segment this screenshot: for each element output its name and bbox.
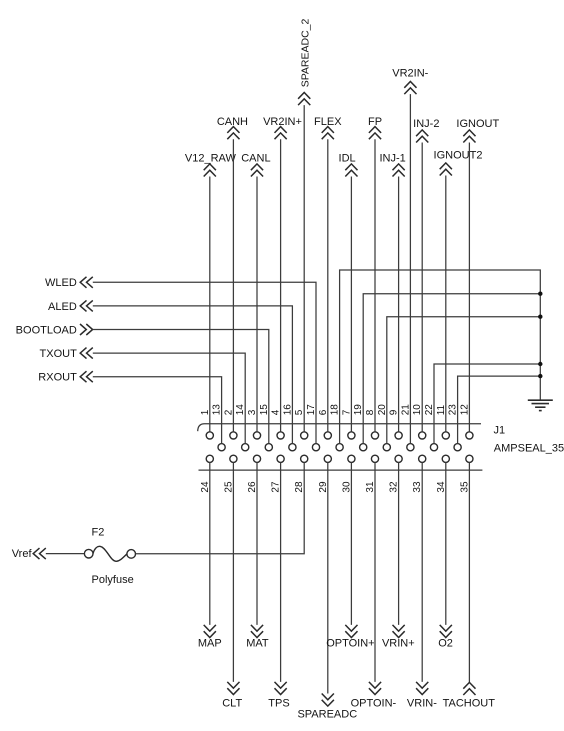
pin 2 number label bbox=[223, 409, 234, 415]
svg-text:31: 31 bbox=[365, 481, 376, 493]
net BOOTLOAD: off-page arrow, label, wire to pin 15 bbox=[16, 324, 269, 444]
pin 19 circle bbox=[360, 444, 367, 451]
pin 4 number label bbox=[271, 409, 282, 415]
net INJ-2: off-page arrow, label and wire to pin 10 bbox=[413, 118, 439, 432]
svg-text:CANH: CANH bbox=[217, 116, 248, 128]
svg-text:MAT: MAT bbox=[246, 638, 269, 650]
svg-text:IGNOUT: IGNOUT bbox=[456, 118, 499, 130]
pin 34 circle bbox=[442, 455, 449, 462]
net OPTOIN-: wire from pin 31, off-page arrow and label bbox=[351, 462, 397, 709]
svg-text:12: 12 bbox=[459, 404, 470, 416]
svg-text:F2: F2 bbox=[92, 526, 105, 538]
svg-text:WLED: WLED bbox=[45, 277, 77, 289]
svg-text:22: 22 bbox=[424, 404, 435, 416]
svg-text:TXOUT: TXOUT bbox=[40, 348, 78, 360]
pin 8 number label bbox=[365, 409, 376, 415]
svg-text:VRIN-: VRIN- bbox=[407, 697, 437, 709]
pin 6 number label bbox=[318, 409, 329, 415]
pin 2 circle bbox=[230, 432, 237, 439]
pin 25 circle bbox=[230, 455, 237, 462]
net MAP: wire from pin 24, off-page arrow and label bbox=[198, 462, 222, 649]
svg-text:19: 19 bbox=[353, 404, 364, 416]
pin 33 number label bbox=[412, 481, 423, 493]
pin 20 circle bbox=[383, 444, 390, 451]
svg-text:29: 29 bbox=[318, 481, 329, 493]
svg-text:26: 26 bbox=[247, 481, 258, 493]
net ALED: off-page arrow, label, wire to pin 16 bbox=[48, 300, 292, 443]
net IDL: off-page arrow, label and wire to pin 7 bbox=[339, 152, 358, 431]
net WLED: off-page arrow, label, wire to pin 17 bbox=[45, 277, 316, 444]
connector J1 body outline bbox=[198, 424, 483, 470]
svg-text:6: 6 bbox=[318, 409, 329, 415]
pin 27 number label bbox=[271, 481, 282, 493]
svg-text:13: 13 bbox=[212, 404, 223, 416]
net CLT: wire from pin 25, off-page arrow and label bbox=[222, 462, 242, 709]
pin 20 number label bbox=[377, 404, 388, 416]
pin 13 number label bbox=[212, 404, 223, 416]
svg-text:VR2IN-: VR2IN- bbox=[392, 67, 428, 79]
svg-text:27: 27 bbox=[271, 481, 282, 493]
svg-text:TACHOUT: TACHOUT bbox=[443, 697, 496, 709]
svg-text:CLT: CLT bbox=[222, 697, 242, 709]
pin 27 circle bbox=[277, 455, 284, 462]
net TXOUT: off-page arrow, label, wire to pin 14 bbox=[40, 348, 246, 444]
pin 17 number label bbox=[306, 404, 317, 416]
connector value label AMPSEAL_35 bbox=[494, 442, 564, 454]
pin 7 number label bbox=[341, 409, 352, 415]
wire pin 22 to ground bus bbox=[434, 364, 540, 444]
pin 23 number label bbox=[448, 404, 459, 416]
junction dot pin 19 wire on ground bus bbox=[538, 292, 542, 296]
net VRIN+: wire from pin 32, off-page arrow and label bbox=[382, 462, 415, 649]
pin 1 number label bbox=[200, 409, 211, 415]
pin 25 number label bbox=[223, 481, 234, 493]
svg-text:IDL: IDL bbox=[339, 152, 356, 164]
wire pin 20 to ground bus bbox=[387, 317, 541, 444]
net CANL: off-page arrow, label and wire to pin 3 bbox=[241, 152, 270, 431]
pin 26 circle bbox=[253, 455, 260, 462]
pin 24 circle bbox=[206, 455, 213, 462]
wire pin 23 to ground bus bbox=[458, 376, 541, 444]
svg-text:16: 16 bbox=[282, 404, 293, 416]
net SPAREADC: wire from pin 29, off-page arrow and label bbox=[297, 462, 357, 720]
junction dot pin 22 wire on ground bus bbox=[538, 362, 542, 366]
wire pin 18 to ground bus (bus top corner) bbox=[340, 270, 541, 444]
pin 7 circle bbox=[348, 432, 355, 439]
net TPS: wire from pin 27, off-page arrow and label bbox=[268, 462, 289, 709]
svg-text:20: 20 bbox=[377, 404, 388, 416]
svg-text:Vref: Vref bbox=[12, 548, 33, 560]
pin 5 number label bbox=[294, 409, 305, 415]
svg-text:INJ-2: INJ-2 bbox=[413, 118, 439, 130]
wire Vref arrow to fuse F2 bbox=[46, 553, 85, 555]
net INJ-1: off-page arrow, label and wire to pin 9 bbox=[379, 152, 405, 431]
svg-text:9: 9 bbox=[389, 409, 400, 415]
svg-text:J1: J1 bbox=[494, 424, 506, 436]
pin 31 number label bbox=[365, 481, 376, 493]
pin 16 circle bbox=[289, 444, 296, 451]
fuse reference label F2 bbox=[92, 526, 105, 538]
pin 12 circle bbox=[466, 432, 473, 439]
ground symbol bbox=[528, 400, 553, 410]
net CANH: off-page arrow, label and wire to pin 2 bbox=[217, 116, 248, 432]
svg-text:18: 18 bbox=[330, 404, 341, 416]
net VR2IN-: off-page arrow, label and wire to pin 21 bbox=[392, 67, 428, 443]
pin 35 circle bbox=[466, 455, 473, 462]
net RXOUT: off-page arrow, label, wire to pin 13 bbox=[38, 371, 221, 443]
svg-text:4: 4 bbox=[271, 409, 282, 415]
svg-text:11: 11 bbox=[436, 404, 447, 415]
net Vref: off-page arrow and label bbox=[12, 548, 46, 560]
pin 22 circle bbox=[430, 444, 437, 451]
junction dot pin 20 wire on ground bus bbox=[538, 315, 542, 319]
pin 15 number label bbox=[259, 404, 270, 416]
svg-text:BOOTLOAD: BOOTLOAD bbox=[16, 324, 77, 336]
svg-text:35: 35 bbox=[459, 481, 470, 493]
svg-text:CANL: CANL bbox=[241, 152, 270, 164]
pin 32 number label bbox=[389, 481, 400, 493]
net OPTOIN+: wire from pin 30, off-page arrow and label bbox=[326, 462, 374, 649]
svg-text:V12_RAW: V12_RAW bbox=[185, 152, 237, 164]
net V12_RAW: off-page arrow, label and wire to pin 1 bbox=[185, 152, 237, 431]
pin 14 circle bbox=[242, 444, 249, 451]
svg-text:33: 33 bbox=[412, 481, 423, 493]
net O2: wire from pin 34, off-page arrow and label bbox=[438, 462, 453, 649]
svg-text:MAP: MAP bbox=[198, 638, 222, 650]
pin 16 number label bbox=[282, 404, 293, 416]
svg-text:1: 1 bbox=[200, 409, 211, 415]
pin 30 circle bbox=[348, 455, 355, 462]
pin 10 number label bbox=[412, 404, 423, 416]
net VR2IN+: off-page arrow, label and wire to pin 4 bbox=[263, 116, 302, 432]
pin 24 number label bbox=[200, 481, 211, 493]
svg-text:17: 17 bbox=[306, 404, 317, 416]
pin 9 circle bbox=[395, 432, 402, 439]
fuse F2 (polyfuse symbol) bbox=[84, 546, 135, 561]
svg-text:ALED: ALED bbox=[48, 301, 77, 313]
svg-text:8: 8 bbox=[365, 409, 376, 415]
pin 29 number label bbox=[318, 481, 329, 493]
pin 9 number label bbox=[389, 409, 400, 415]
svg-text:30: 30 bbox=[341, 481, 352, 493]
wire fuse F2 to pin 28 bbox=[136, 462, 305, 553]
svg-text:21: 21 bbox=[400, 404, 411, 416]
pin 29 circle bbox=[324, 455, 331, 462]
pin 23 circle bbox=[454, 444, 461, 451]
pin 28 number label bbox=[294, 481, 305, 493]
pin 34 number label bbox=[436, 481, 447, 493]
pin 32 circle bbox=[395, 455, 402, 462]
svg-text:2: 2 bbox=[223, 409, 234, 415]
svg-text:28: 28 bbox=[294, 481, 305, 493]
svg-text:O2: O2 bbox=[438, 638, 453, 650]
svg-text:RXOUT: RXOUT bbox=[38, 372, 77, 384]
pin 3 circle bbox=[253, 432, 260, 439]
svg-text:SPAREADC_2: SPAREADC_2 bbox=[300, 18, 312, 87]
svg-text:3: 3 bbox=[247, 409, 258, 415]
pin 8 circle bbox=[371, 432, 378, 439]
svg-text:7: 7 bbox=[341, 409, 352, 415]
svg-text:5: 5 bbox=[294, 409, 305, 415]
svg-text:10: 10 bbox=[412, 404, 423, 416]
connector reference label J1 bbox=[494, 424, 506, 436]
net IGNOUT2: off-page arrow, label and wire to pin 11 bbox=[434, 150, 483, 432]
pin 18 circle bbox=[336, 444, 343, 451]
svg-text:15: 15 bbox=[259, 404, 270, 416]
pin 12 number label bbox=[459, 404, 470, 416]
pin 1 circle bbox=[206, 432, 213, 439]
fuse value label Polyfuse bbox=[92, 574, 134, 586]
junction dot pin 23 wire on ground bus bbox=[538, 374, 542, 378]
net IGNOUT: off-page arrow, label and wire to pin 12 bbox=[456, 118, 499, 432]
net VRIN-: wire from pin 33, off-page arrow and label bbox=[407, 462, 437, 709]
pin 6 circle bbox=[324, 432, 331, 439]
net FLEX: off-page arrow, label and wire to pin 6 bbox=[314, 116, 342, 432]
svg-text:25: 25 bbox=[223, 481, 234, 493]
net FP: off-page arrow, label and wire to pin 8 bbox=[368, 116, 382, 432]
svg-text:INJ-1: INJ-1 bbox=[379, 152, 405, 164]
net TACHOUT: wire from pin 35, off-page arrow and label bbox=[443, 462, 496, 709]
pin 4 circle bbox=[277, 432, 284, 439]
svg-text:TPS: TPS bbox=[268, 697, 289, 709]
net SPAREADC_2: vertical label, off-page arrow and wire to pin 5 bbox=[298, 18, 312, 431]
pin 35 number label bbox=[459, 481, 470, 493]
net MAT: wire from pin 26, off-page arrow and label bbox=[246, 462, 269, 649]
svg-text:34: 34 bbox=[436, 481, 447, 493]
svg-text:14: 14 bbox=[235, 404, 246, 416]
svg-text:24: 24 bbox=[200, 481, 211, 493]
pin 30 number label bbox=[341, 481, 352, 493]
pin 26 number label bbox=[247, 481, 258, 493]
svg-text:OPTOIN-: OPTOIN- bbox=[351, 697, 397, 709]
svg-text:32: 32 bbox=[389, 481, 400, 493]
pin 10 circle bbox=[419, 432, 426, 439]
pin 18 number label bbox=[330, 404, 341, 416]
pin 19 number label bbox=[353, 404, 364, 416]
pin 31 circle bbox=[371, 455, 378, 462]
svg-text:Polyfuse: Polyfuse bbox=[92, 574, 134, 586]
pin 13 circle bbox=[218, 444, 225, 451]
pin 5 circle bbox=[301, 432, 308, 439]
svg-text:VRIN+: VRIN+ bbox=[382, 638, 415, 650]
pin 11 number label bbox=[436, 404, 447, 415]
pin 28 circle bbox=[301, 455, 308, 462]
pin 33 circle bbox=[419, 455, 426, 462]
pin 15 circle bbox=[265, 444, 272, 451]
svg-text:VR2IN+: VR2IN+ bbox=[263, 116, 302, 128]
pin 14 number label bbox=[235, 404, 246, 416]
svg-text:IGNOUT2: IGNOUT2 bbox=[434, 150, 483, 162]
svg-text:OPTOIN+: OPTOIN+ bbox=[326, 638, 374, 650]
pin 21 circle bbox=[407, 444, 414, 451]
svg-text:SPAREADC: SPAREADC bbox=[297, 708, 357, 720]
pin 22 number label bbox=[424, 404, 435, 416]
pin 21 number label bbox=[400, 404, 411, 416]
svg-text:23: 23 bbox=[448, 404, 459, 416]
wire pin 19 to ground bus bbox=[363, 294, 540, 444]
pin 17 circle bbox=[312, 444, 319, 451]
pin 3 number label bbox=[247, 409, 258, 415]
svg-text:AMPSEAL_35: AMPSEAL_35 bbox=[494, 442, 564, 454]
pin 11 circle bbox=[442, 432, 449, 439]
